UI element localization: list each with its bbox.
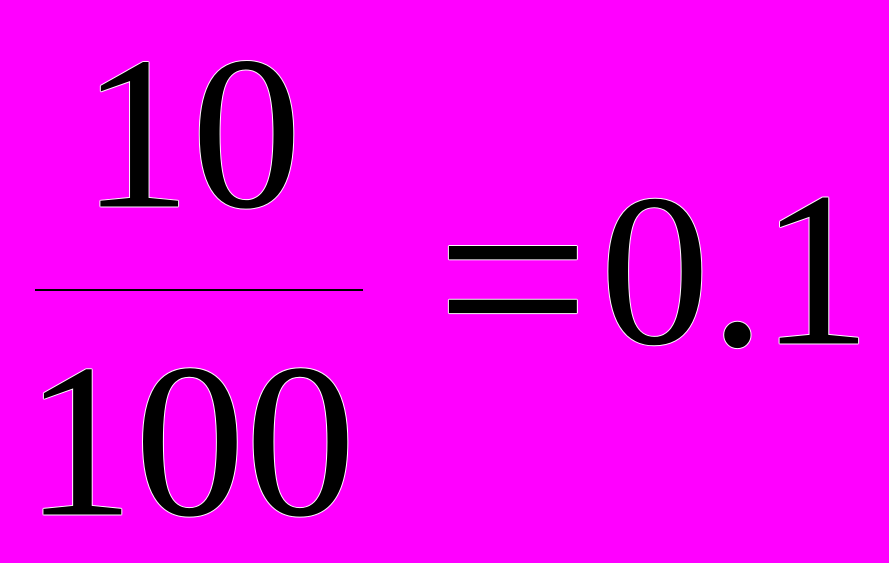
denominator 100 [24,331,356,551]
result digit 0 [600,162,710,379]
fraction bar [35,289,363,291]
result digit 1 [760,159,872,380]
equals sign [435,145,590,414]
numerator 10 [81,24,302,243]
result decimal point [710,159,766,382]
